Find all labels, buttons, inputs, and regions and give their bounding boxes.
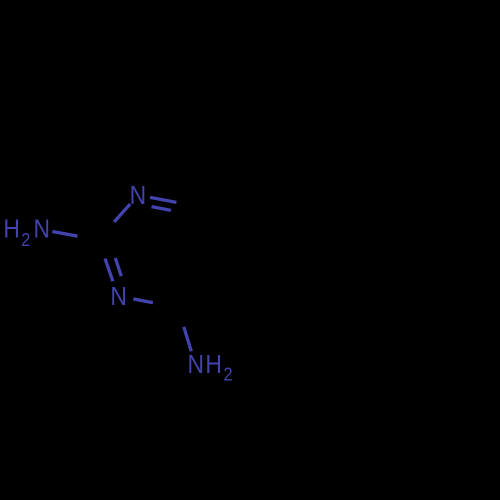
wire bond C2=N3 inner blue half xyxy=(115,258,121,276)
wire bond C2-NH2left blue half xyxy=(52,232,77,237)
wire bond C2-NH2left carbon half xyxy=(78,236,99,240)
wire bond C2=N3 inner carbon half xyxy=(110,242,115,258)
svg-text:N: N xyxy=(34,215,51,244)
wire bond N1-C2 carbon half xyxy=(99,222,114,240)
wire bond C4-C5 carbon xyxy=(176,262,215,307)
wire bond N1=C6 main carbon half xyxy=(177,202,196,206)
wire bond C4-NH2bottom carbon half xyxy=(176,307,184,327)
wire bond N3-C4 blue half xyxy=(133,299,153,303)
node NH2 amine label bottom xyxy=(188,351,233,385)
wire bond N3-C4 carbon half xyxy=(153,303,176,307)
svg-text:H: H xyxy=(3,215,20,244)
wire bond N1=C6 main blue half xyxy=(150,197,177,202)
wire bond N1=C6 inner carbon half xyxy=(171,210,182,212)
wire bond C2=N3 main carbon half xyxy=(99,240,105,259)
wire bond C5-C6 carbon xyxy=(196,206,215,262)
wire bond N1-C2 blue half xyxy=(114,204,130,222)
wire bond N1=C6 inner blue half xyxy=(152,207,172,211)
svg-text:2: 2 xyxy=(224,363,233,384)
svg-text:2: 2 xyxy=(21,229,30,250)
svg-text:N: N xyxy=(130,182,147,211)
svg-text:N: N xyxy=(188,351,205,380)
node H2N amine label left xyxy=(3,215,50,250)
wire bond C4-NH2bottom blue half xyxy=(184,327,192,352)
wire bond C2=N3 main blue half xyxy=(105,259,113,282)
svg-text:H: H xyxy=(205,351,222,380)
svg-text:N: N xyxy=(110,283,127,312)
